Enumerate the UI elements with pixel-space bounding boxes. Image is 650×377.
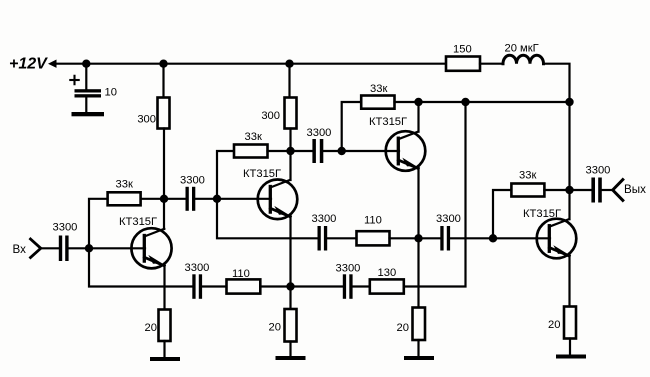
svg-text:110: 110 <box>232 268 250 280</box>
wire R4 to Q2 collector node <box>289 129 291 181</box>
input arrow chevron <box>31 239 41 258</box>
capacitor C1 10 polarity plus <box>70 76 78 84</box>
wire rail to R4 <box>288 64 290 98</box>
wire upper feedback from Q2 base <box>217 199 318 239</box>
node junction rail2 drop <box>461 98 469 106</box>
svg-text:10: 10 <box>105 87 117 99</box>
wire R7 to ground <box>289 342 291 357</box>
wire Q2 base up to R6 <box>217 151 234 199</box>
wire R9 to Q3 collector node <box>395 101 419 103</box>
resistor R4 300 <box>285 98 297 129</box>
capacitor C7 3300 lower feedback right <box>343 274 346 299</box>
wire C5 to Q3 base node <box>323 150 341 152</box>
svg-text:3300: 3300 <box>307 127 332 139</box>
resistor R8 110 upper feedback <box>357 231 390 245</box>
svg-text:3300: 3300 <box>180 175 205 187</box>
capacitor C4 3300 lower feedback <box>192 274 195 299</box>
node Q1 collector junction <box>160 195 168 203</box>
wire Q1 emitter down <box>163 264 165 310</box>
transistor Q1 KT315G <box>131 228 171 268</box>
resistor R5 110 lower feedback <box>227 279 261 293</box>
wire C9 to output arrow <box>602 189 613 191</box>
wire Q2 emitter down <box>289 215 291 309</box>
output arrow chevron <box>613 180 623 201</box>
wire Q1 collector <box>163 199 165 229</box>
node Q3 collector junction <box>414 98 422 106</box>
capacitor C6 3300 upper feedback <box>318 226 321 251</box>
wire rail2 down to Q4 collector node <box>568 102 570 190</box>
ground G3 <box>404 356 434 360</box>
wire chain node to C8 <box>419 237 441 239</box>
node Q3 emitter junction <box>414 234 422 242</box>
svg-text:33к: 33к <box>370 83 387 95</box>
wire R10 to ground <box>417 340 419 356</box>
svg-text:+12V: +12V <box>9 56 48 73</box>
wire C7 to R11 <box>353 285 370 287</box>
node Q1 base junction <box>85 244 93 252</box>
wire R5 to Q2 emitter node <box>260 285 290 287</box>
wire C4 to R5 <box>202 285 226 287</box>
svg-text:КТ315Г: КТ315Г <box>243 168 281 180</box>
svg-text:3300: 3300 <box>185 262 210 274</box>
wire Q4 emitter down <box>568 254 570 306</box>
ground G2 <box>276 356 306 360</box>
svg-text:КТ315Г: КТ315Г <box>523 208 561 220</box>
node Q3 base junction <box>338 147 346 155</box>
capacitor C8 3300 to Q4 base <box>440 226 443 251</box>
wire C2 to Q2 base node <box>195 198 217 200</box>
svg-text:3300: 3300 <box>586 165 611 177</box>
svg-text:3300: 3300 <box>436 213 461 225</box>
wire R8 to Q3 emitter node <box>390 237 419 239</box>
wire Q3 base <box>342 150 399 152</box>
svg-text:110: 110 <box>364 215 382 227</box>
inductor L1 20uH <box>503 55 544 64</box>
svg-text:3300: 3300 <box>336 263 361 275</box>
svg-text:20: 20 <box>145 322 157 334</box>
wire lower feedback from Q1 base <box>89 248 192 286</box>
svg-text:20: 20 <box>397 322 409 334</box>
svg-text:33к: 33к <box>519 170 536 182</box>
transistor Q2 KT315G <box>258 180 298 220</box>
wire Q4 base <box>493 237 550 239</box>
resistor R9 33k feedback Q3 <box>361 96 394 109</box>
wire Q3 base up to R9 <box>342 102 362 151</box>
wire node to C7 lower feedback right <box>291 285 343 287</box>
svg-text:3300: 3300 <box>312 213 337 225</box>
wire C1 top stub <box>85 64 87 90</box>
wire R12 to Q4 collector node <box>544 189 569 191</box>
ground G4 <box>556 355 586 359</box>
svg-text:150: 150 <box>453 44 472 56</box>
capacitor C9 3300 output <box>591 178 595 203</box>
svg-text:33к: 33к <box>245 131 262 143</box>
wire R3 to ground <box>163 341 165 357</box>
wire R6 to Q2 collector node <box>268 150 291 152</box>
resistor R1 300 <box>158 98 170 129</box>
svg-text:33к: 33к <box>116 179 133 191</box>
wire input to C3 <box>41 247 59 249</box>
resistor R2 33k feedback Q1 <box>89 199 108 249</box>
svg-text:Вх: Вх <box>13 243 27 256</box>
wire C3 to Q1 base node <box>69 247 89 249</box>
wire rail to R1 <box>162 64 164 98</box>
node +12V arrow <box>48 60 57 68</box>
ground below C1 <box>72 112 105 116</box>
resistor R12 33k feedback Q4 <box>511 184 544 197</box>
ground G1 <box>150 357 180 361</box>
wire C8 to Q4 base node <box>450 237 493 239</box>
wire Q4 collector up <box>568 190 570 219</box>
wire R2 to node1 <box>141 198 164 200</box>
wire Q3 emitter down <box>417 167 419 308</box>
svg-text:3300: 3300 <box>53 222 78 234</box>
node junction rail-C1 <box>82 60 90 68</box>
svg-text:20: 20 <box>269 322 281 334</box>
resistor R13 20 emitter Q4 <box>564 307 576 339</box>
resistor R10 20 emitter Q3 <box>413 308 426 341</box>
capacitor C2 3300 coupling Q1-Q2 <box>186 187 189 211</box>
node junction rail-R1 <box>159 60 167 68</box>
wire second rail <box>419 101 570 103</box>
resistor R14 150 supply filter <box>446 57 480 71</box>
svg-text:20: 20 <box>548 319 560 331</box>
wire drop to lower feedback <box>404 102 466 287</box>
wire Q2 base <box>217 198 271 200</box>
resistor R11 130 <box>370 279 404 293</box>
capacitor C3 3300 input <box>59 236 62 262</box>
resistor R7 20 emitter Q2 <box>285 309 297 342</box>
svg-text:КТ315Г: КТ315Г <box>369 116 407 128</box>
svg-text:300: 300 <box>261 110 280 122</box>
wire node to C5 <box>291 150 313 152</box>
wire C1 bottom stub <box>85 98 87 113</box>
wire L1 to rail2 corner <box>544 64 570 102</box>
wire R13 to ground <box>569 339 571 355</box>
transistor Q3 KT315G <box>386 131 426 171</box>
node Q4 base junction <box>489 234 497 242</box>
wire R14 to L1 <box>480 63 503 65</box>
resistor R3 20 emitter Q1 <box>159 310 171 342</box>
node Q2 base junction <box>213 195 221 203</box>
node junction rail2 right <box>565 98 573 106</box>
wire C6 to R8 <box>327 237 356 239</box>
wire Q3 collector up <box>417 102 419 132</box>
wire main +12V rail <box>55 63 446 65</box>
node Q4 collector junction <box>565 186 573 194</box>
transistor Q4 KT315G <box>537 219 577 259</box>
svg-text:КТ315Г: КТ315Г <box>119 216 157 228</box>
node Q2 emitter junction <box>286 282 294 290</box>
wire R1 to node1 <box>163 129 165 199</box>
wire node1 to C2 <box>164 198 186 200</box>
capacitor C5 3300 coupling Q2-Q3 <box>312 139 316 163</box>
wire Q4 base up to R12 <box>493 190 511 238</box>
wire Q4 collector node to C9 <box>570 189 592 191</box>
capacitor C1 plates <box>75 89 102 92</box>
node junction rail-R4 <box>285 60 293 68</box>
node Q2 collector junction <box>286 147 294 155</box>
svg-text:300: 300 <box>137 114 156 126</box>
svg-text:Вых: Вых <box>624 183 646 196</box>
resistor R6 33k feedback Q2 <box>234 145 268 158</box>
wire Q1 base <box>89 247 145 249</box>
svg-text:20 мкГ: 20 мкГ <box>505 43 539 55</box>
svg-text:130: 130 <box>378 267 397 279</box>
